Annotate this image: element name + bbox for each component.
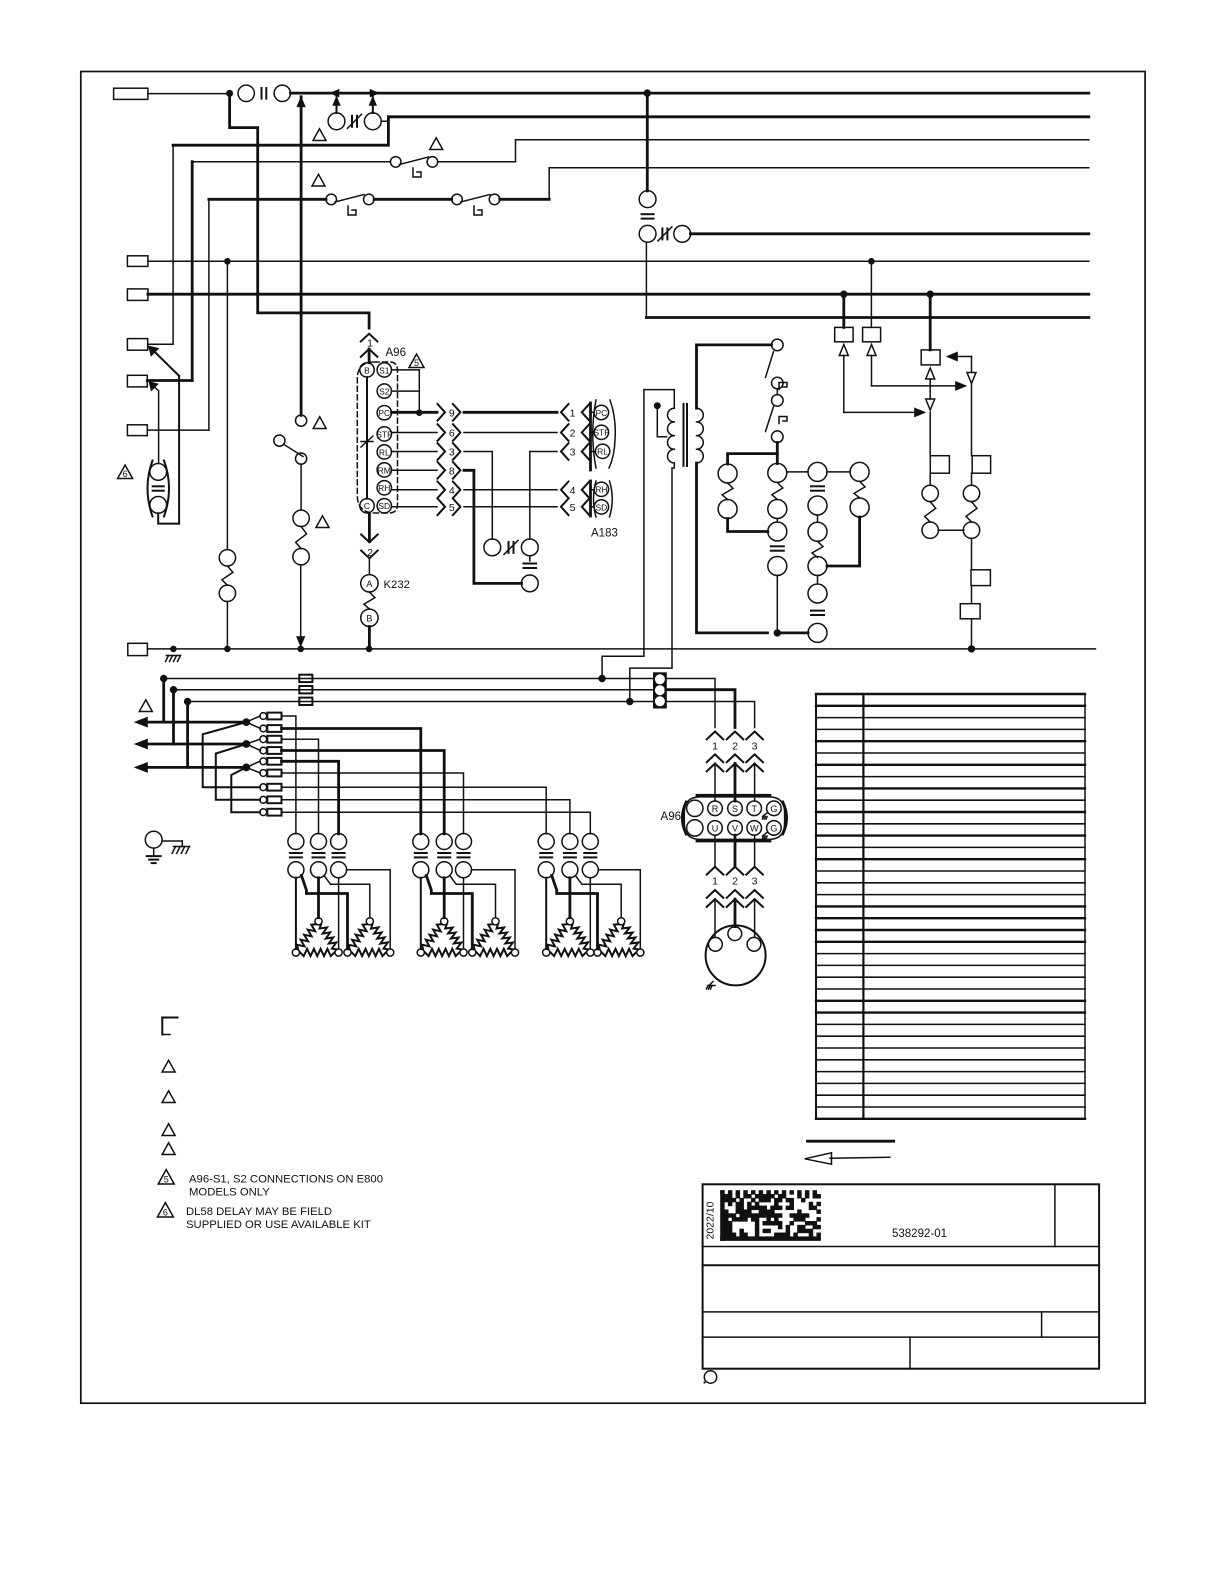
node line1 tap dot [160, 675, 167, 682]
wire L3 bus left part [192, 161, 390, 163]
svg-text:S2: S2 [379, 387, 390, 397]
svg-text:538292-01: 538292-01 [892, 1228, 947, 1240]
switch S13 bottom contact [296, 453, 307, 464]
contactor group1 pole2 [311, 834, 327, 878]
wire bar to SD [591, 506, 595, 508]
triangle flag 7 [139, 700, 152, 712]
node field line1 dot [243, 719, 250, 726]
node field line3 dot [243, 764, 250, 771]
wire ribbon row2 [464, 432, 557, 434]
switch S10 right contact [427, 157, 438, 168]
lockout K40 slashed capacitor [508, 542, 510, 553]
note 6 text [186, 1206, 371, 1231]
splice connector row8 [260, 796, 282, 803]
wire R31 down [971, 538, 973, 569]
svg-text:2: 2 [732, 876, 738, 888]
resistor R20 drop from L6 [226, 261, 228, 549]
ribbon chevron pair 6 [438, 424, 461, 441]
field wiring line 1 with arrow [135, 717, 247, 727]
heater element delta 2 [344, 918, 394, 956]
node bus dot R20 [224, 646, 230, 652]
A183 pin RH [594, 482, 608, 496]
wire bar to STF [591, 432, 595, 434]
wire g1 pole1 to delta1 BL [295, 878, 297, 949]
svg-text:2022/10: 2022/10 [705, 1201, 717, 1239]
labels 1 2 3 lower [712, 876, 758, 888]
wire fan line3 to row6 [246, 767, 260, 773]
wire S20 to coil K10 [776, 443, 779, 464]
wire T32 to T33 [971, 586, 973, 604]
wire S15 drop to L8 [646, 242, 1088, 317]
wire coil bridge bottom [728, 519, 768, 532]
switch S13 blade [284, 444, 304, 456]
wire S20b-c link [776, 389, 778, 395]
fuse block F2 bracket right [164, 461, 169, 517]
wire fan line2 to row3 [246, 739, 260, 744]
wire SD to chevron 5 [392, 506, 438, 508]
svg-text:SD: SD [595, 502, 607, 512]
pin RL circle [377, 445, 391, 459]
transformer T1 tap stub [657, 406, 666, 437]
wire K11 gap link [817, 576, 819, 585]
wire T30 to R30 [929, 473, 931, 485]
switch S12 left contact [452, 194, 463, 205]
heater element delta 3 [417, 918, 467, 956]
plug chevron 1 top [361, 313, 378, 342]
svg-text:G: G [770, 824, 777, 834]
wire g3 pole3 to delta1 BR [589, 878, 591, 949]
hollow arrow down center branch [926, 399, 935, 456]
wire L4 step [548, 168, 550, 200]
wire STF to chevron 6 [392, 432, 438, 434]
note 5 triangle [158, 1170, 174, 1184]
A183 pin RL [595, 444, 609, 458]
svg-text:6: 6 [449, 428, 455, 440]
wire R30 to R31 link [938, 529, 963, 531]
equipment ground link [162, 840, 182, 842]
svg-text:8: 8 [449, 465, 455, 477]
wire L7 bus heavy [148, 293, 1089, 296]
coil K10a top circle [718, 464, 737, 483]
pin C circle [360, 499, 374, 513]
wire S13 to R21 [300, 464, 302, 510]
wire g2 pole1 to delta2 BL [426, 876, 472, 949]
wires A96 to motor chevrons [707, 835, 763, 874]
connector A183 bar group1 [589, 403, 592, 470]
coil K11 mid circle [808, 496, 827, 515]
lockout K40 capacitor below [524, 563, 537, 565]
wire stub A to field line 1 [162, 679, 165, 723]
transformer T1 core [683, 404, 685, 466]
resistor R20 bottom circle [219, 585, 235, 601]
wire L1 drop to S15 [646, 93, 649, 191]
wire bar to RL [591, 451, 596, 453]
wire J3 pin2 to chevron2 [666, 690, 735, 728]
resistor R31 bottom circle [963, 522, 979, 538]
wire TB4 arrow from fuse loop [149, 346, 180, 524]
svg-text:K232: K232 [384, 579, 410, 591]
wire L6 drop to box DL2 [870, 261, 872, 327]
contactor group1 pole3 [331, 834, 347, 878]
A183 pin STF [594, 425, 608, 439]
wire row8 feeder [282, 800, 570, 834]
fuse F1 right terminal [274, 85, 290, 101]
hollow arrow into DL2 [867, 345, 876, 356]
wire R20 to bottom bus [226, 602, 228, 649]
coil K10a element [722, 483, 733, 500]
terminal box TB5 [127, 375, 147, 387]
wire RM to chevron 8 [392, 469, 438, 471]
node bus dot ground [170, 646, 176, 652]
wire row3 feeder [282, 739, 319, 834]
wire DL1 stem to crossover [844, 356, 926, 417]
triangle flag 4 [313, 417, 326, 429]
wire bottom neutral bus [148, 648, 1096, 650]
wire L5 bus [691, 232, 1089, 235]
motor plug pin 2 [728, 927, 742, 941]
wire plug P1 to L2 bus riser [381, 117, 388, 122]
resistor R31 top circle [963, 485, 979, 501]
transformer T1 secondary lead upper [697, 345, 772, 408]
fuse F1 element [261, 88, 263, 99]
wire L7 drop to box DL1 [842, 294, 845, 327]
A96 ground glyph top [763, 813, 768, 819]
wire K232 to bottom bus [368, 627, 371, 649]
wire row6 feeder [282, 773, 464, 834]
svg-text:3: 3 [752, 741, 758, 753]
switch S12 blade [461, 195, 490, 203]
disconnect plug P1 left arrow [330, 89, 379, 97]
plug P1 right contact circle [364, 113, 381, 130]
coil K10b bottom circle [768, 500, 787, 519]
wire J3 pin3 to chevron3 [666, 702, 755, 728]
node rail dot [774, 630, 781, 637]
heater element delta 4 [469, 918, 519, 956]
svg-text:RH: RH [595, 485, 607, 495]
wire crossover drop left [172, 145, 174, 344]
contactor group1 pole1 [288, 834, 304, 878]
wire L3 drop at left [191, 162, 194, 381]
wire rail dot to K11 [781, 632, 808, 635]
wire g1 pole3 to delta2 BR [347, 870, 391, 949]
svg-text:R: R [712, 804, 719, 814]
node L7 dot left [840, 291, 847, 298]
coil K11 capacitor [811, 485, 824, 487]
triangle legend 4 [162, 1143, 175, 1155]
motor plug chevrons lower [707, 890, 763, 936]
relay K232 terminal B [361, 609, 378, 626]
fuse F2 top circle [150, 464, 167, 481]
svg-text:2: 2 [570, 428, 576, 440]
wire row9 feeder [282, 812, 591, 834]
wire ribbon row5 [464, 506, 557, 508]
arrow into DL58 from right [947, 352, 972, 372]
wire F2 bottom loop [158, 513, 179, 523]
wire ribbon row3 right segment [530, 452, 557, 540]
wire K12 to K11 link [827, 517, 860, 566]
switch S12 right contact [489, 194, 500, 205]
resistor R31 element [966, 502, 977, 522]
A96 pin U bottom [708, 821, 723, 836]
limit S15 right circle [674, 226, 691, 243]
svg-text:DL58 DELAY MAY BE FIELD: DL58 DELAY MAY BE FIELD [186, 1206, 332, 1218]
note 5 text [189, 1174, 383, 1199]
pin PC circle [377, 406, 391, 420]
node line2 tap dot [170, 686, 177, 693]
wire g3 pole3 to delta2 BR [598, 870, 640, 949]
splice box line B [299, 686, 312, 693]
coil K11 rail circle [808, 623, 827, 642]
splice connector row6 [260, 770, 282, 777]
svg-text:2: 2 [732, 741, 738, 753]
resistor R30 top circle [922, 485, 938, 501]
wire K40 vertical [529, 556, 531, 561]
svg-text:G: G [770, 804, 777, 814]
svg-text:4: 4 [449, 485, 455, 497]
motor plug ground glyph [707, 982, 716, 990]
switch S11 right contact [364, 194, 375, 205]
ground symbol at bus [167, 655, 181, 657]
heater element delta 6 [594, 918, 644, 956]
triangle flag 5 [316, 516, 329, 528]
wire TB4 riser to L-crossover [148, 343, 173, 345]
wire g3 pole2 to delta2 top [575, 876, 621, 918]
svg-text:STF: STF [376, 429, 392, 439]
svg-text:A183: A183 [591, 528, 618, 540]
heater element delta 1 [292, 918, 342, 956]
svg-text:W: W [750, 824, 759, 834]
wire stub C to field line 3 [186, 702, 189, 768]
wire drop line1 to row7 [203, 722, 260, 787]
wire L3 step [515, 140, 517, 162]
ribbon receive chevron 5 [561, 499, 589, 516]
A96 pin key bottom [687, 820, 703, 836]
wire L1 bus top [291, 92, 1089, 95]
registration circle [704, 1371, 716, 1383]
pin RM circle [377, 463, 391, 477]
splice connector row1 [260, 713, 282, 720]
splice connector row3 [260, 736, 282, 743]
pin S2 circle [377, 384, 391, 398]
node lineC dot transformer [626, 698, 633, 705]
wire L2 drop to heavy crossover [173, 117, 388, 145]
wire g3 pole1 to delta1 BL [545, 878, 547, 949]
wire L7 drop to box DL58 [929, 294, 932, 350]
contactor group3 pole1 [538, 834, 554, 878]
wire g1 pole2 to delta1 top [317, 878, 320, 918]
specification table grid [816, 694, 1085, 1119]
connector block J3 outline [654, 673, 666, 707]
wire row2 feeder [282, 729, 421, 834]
pin B circle [360, 363, 374, 377]
terminal box TB4 [127, 339, 147, 351]
ribbon receive chevron 1 [561, 404, 589, 421]
relay K232 terminal A [361, 575, 378, 592]
node TB1 wire dot [226, 90, 232, 96]
motor plug pin 1 [709, 937, 723, 951]
wire M1 to rail [776, 576, 778, 633]
terminal box DL2 [863, 327, 881, 341]
connector A183 bar group2 [589, 481, 592, 516]
svg-text:1: 1 [570, 407, 576, 419]
svg-text:5: 5 [164, 1175, 169, 1185]
contactor group2 pole1 [413, 834, 429, 878]
wire bar to PC [591, 411, 595, 413]
coil K11 element [812, 541, 823, 557]
resistor R21 top circle [293, 510, 309, 526]
node PC jumper dot [416, 410, 422, 416]
wire L1 arrow drop heavy [297, 97, 305, 416]
svg-text:1: 1 [712, 876, 718, 888]
wire row1 feeder [282, 716, 296, 834]
relay K232 element [364, 592, 375, 609]
ribbon chevron pair 4 [438, 482, 461, 499]
wire TB6 to bus riser [147, 429, 209, 431]
wire S12 to L4 step [500, 198, 549, 201]
wire K10b to contact circle [776, 519, 778, 523]
switch S13 top contact [296, 415, 307, 426]
terminal box T31 [972, 456, 990, 474]
switch S11 release symbol [348, 206, 356, 215]
interlock S20 release a [779, 383, 787, 390]
interlock switch S20 contact a [772, 339, 784, 351]
terminal box DL1 [835, 327, 853, 341]
wire R21 arrow to bottom bus [297, 565, 305, 647]
svg-text:RH: RH [378, 483, 390, 493]
node bottom bus dot right [968, 646, 975, 653]
coil K11 bottom circle [808, 557, 827, 576]
contactor group3 pole2 [562, 834, 578, 878]
ribbon chevron pair 5 [438, 499, 461, 516]
wire arrow into TB5 from fuse [149, 382, 159, 464]
contact M1 top circle [768, 522, 787, 541]
svg-text:6: 6 [123, 469, 128, 479]
svg-text:PC: PC [378, 408, 390, 418]
plug chevrons upper set 2 [707, 754, 763, 801]
fuse block F2 bracket left [148, 461, 153, 517]
svg-text:S1: S1 [379, 365, 390, 375]
plug P1 left contact circle [328, 113, 345, 130]
transformer T1 primary winding [668, 408, 675, 463]
wire L2 bus [388, 115, 1088, 118]
wire J3 pin1 to chevron1 [666, 679, 715, 728]
splice connector row4 [260, 747, 282, 754]
wire g2 pole2 to delta2 top [450, 876, 496, 918]
A96 pin G bottom [767, 821, 782, 836]
lockout switch K40 left circle [484, 539, 501, 556]
node lineA dot transformer [599, 675, 606, 682]
coil K12 element [854, 481, 865, 498]
coil K10a bottom circle [718, 500, 737, 519]
pin STF circle [377, 427, 391, 441]
A96 pin V bottom [728, 821, 743, 836]
terminal box DL58 [921, 350, 940, 365]
title block outline [703, 1184, 1100, 1368]
ribbon receive chevron 4 [561, 482, 589, 499]
resistor R20 top circle [219, 550, 235, 566]
hollow arrow down right branch [967, 373, 976, 456]
terminal box TB3 [127, 289, 147, 301]
terminal box TB6 [127, 425, 147, 436]
wire PC to chevron 9 [392, 411, 438, 414]
revision bar [808, 1140, 894, 1143]
border frame [81, 72, 1145, 1404]
wire row5 feeder [282, 761, 339, 834]
transformer T1 secondary lead lower [697, 463, 768, 633]
contactor group2 pole2 [436, 834, 452, 878]
coil K10b element [772, 482, 783, 499]
resistor R30 element [925, 502, 936, 522]
resistor R30 bottom circle [922, 522, 938, 538]
svg-text:STF: STF [593, 428, 609, 438]
wire S10 to L3 step [438, 161, 516, 163]
connector A96 plug outline [684, 797, 784, 840]
bracket symbol legend [162, 1018, 177, 1035]
wire L4 bus left part [209, 198, 326, 201]
terminal box T32 [971, 570, 990, 586]
limit switch S15 top circle [639, 191, 656, 208]
connector A96 shell bars [682, 795, 786, 841]
node L6 dot right section [868, 258, 874, 264]
splice connector row9 [260, 809, 282, 816]
resistor R21 element [296, 527, 307, 549]
plug chevron 1 bottom pair [361, 349, 378, 363]
motor plug body [706, 925, 766, 985]
interlock S20 release b [779, 417, 787, 424]
wire ribbon row8 segment [464, 470, 522, 583]
coil K11 top circle [808, 462, 827, 481]
contact M1 capacitor [771, 545, 784, 547]
svg-text:4: 4 [570, 485, 576, 497]
wire coil bridge top [728, 454, 778, 464]
wire fan line1 to row2 [246, 722, 260, 728]
A96 pin G top [767, 801, 782, 816]
hollow arrow up into DL58 [926, 368, 935, 399]
wire g2 pole2 to delta1 top [443, 878, 446, 918]
A96 pin S top [728, 801, 743, 816]
fuse F2 capacitor [153, 485, 164, 487]
splice connector row7 [260, 784, 282, 791]
wire bar to RH [591, 489, 595, 491]
chassis ground symbol [172, 841, 190, 853]
field wiring line 3 with arrow [135, 762, 247, 772]
lockout K40 right circle [521, 539, 538, 556]
node bus dot K232 [366, 646, 372, 652]
datamatrix barcode [721, 1191, 821, 1241]
wire L4 drop at left [208, 199, 210, 430]
svg-text:RM: RM [378, 465, 391, 475]
ribbon chevron pair 9 [438, 404, 461, 421]
svg-text:RL: RL [379, 447, 390, 457]
triangle flag 3 [312, 174, 325, 186]
switch S13 side contact [274, 435, 285, 446]
svg-text:SUPPLIED OR USE AVAILABLE KIT: SUPPLIED OR USE AVAILABLE KIT [186, 1219, 371, 1231]
wire B-C internal with slashed cap [361, 377, 373, 499]
svg-text:5: 5 [414, 358, 419, 368]
wire DL2 stem to crossover [872, 356, 967, 391]
wire g2 pole3 to delta1 BR [463, 878, 465, 949]
switch S10 blade [400, 157, 429, 165]
wire g2 pole1 to delta1 BL [420, 878, 422, 949]
plug P1 slashed capacitor [351, 116, 353, 127]
node bus dot R21 [298, 646, 304, 652]
transformer T1 primary lead lower [630, 463, 675, 702]
triangle flag note5 [409, 354, 424, 368]
coil K11 lower circle [808, 584, 827, 603]
svg-text:1: 1 [712, 741, 718, 753]
svg-text:3: 3 [570, 447, 576, 459]
triangle legend 1 [162, 1060, 175, 1072]
